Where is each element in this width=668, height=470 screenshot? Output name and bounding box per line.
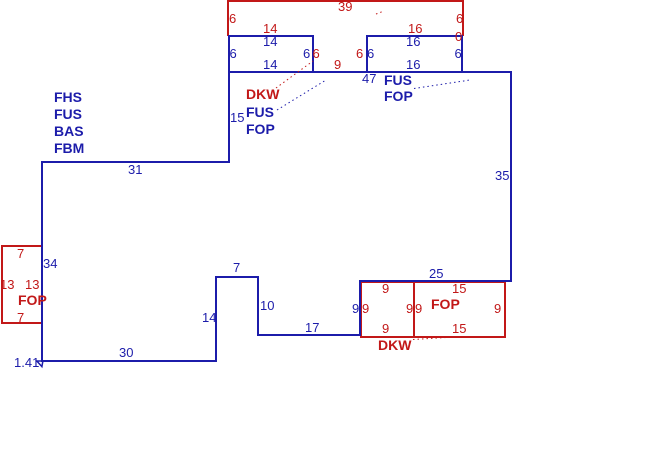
dim 6 blue box1 right — [303, 47, 310, 60]
dim 14 blue top — [263, 35, 277, 48]
dim 25 — [429, 267, 443, 280]
dim 16 red — [408, 22, 422, 35]
label FUS left — [246, 105, 274, 119]
label FOP left box — [18, 293, 47, 307]
dotted pointer DKW box — [413, 338, 446, 340]
label FOP red box — [431, 297, 460, 311]
left red FOP box — [1, 245, 43, 324]
dim 10 — [260, 299, 274, 312]
dim 6 blue box1 left — [230, 47, 237, 60]
label FOP left — [246, 122, 275, 136]
label FOP right — [384, 89, 413, 103]
dim 15 red top — [452, 282, 466, 295]
main outline wall 14 — [215, 276, 217, 362]
dim 16 blue bottom — [406, 58, 420, 71]
dotted pointer FUS left — [277, 80, 326, 110]
dim 6 red gap right — [356, 47, 363, 60]
dim 9 red divider left — [406, 302, 413, 315]
main outline wall 17 — [257, 334, 361, 336]
dim 6 top-right — [456, 12, 463, 25]
blue garage box 1 — [228, 35, 314, 73]
main outline wall 7 — [215, 276, 259, 278]
dim 34 — [43, 257, 57, 270]
dim 14 blue bottom — [263, 58, 277, 71]
dim 16 blue top — [406, 35, 420, 48]
dim 35 — [495, 169, 509, 182]
dim 6 blue box2 left — [367, 47, 374, 60]
dim 9 red cell bottom — [382, 322, 389, 335]
dim 39 — [338, 0, 352, 13]
main outline wall 9 — [359, 280, 361, 336]
blue garage box 2 — [366, 35, 464, 73]
dim 7 red top — [17, 247, 24, 260]
dim 9 red left wall — [362, 302, 369, 315]
label DKW red box — [378, 338, 411, 352]
main outline wall 10 — [257, 276, 259, 337]
dim 14 blue left step — [202, 311, 216, 324]
dim 13 red left — [0, 278, 14, 291]
dim 0 red — [455, 30, 462, 43]
dim 9 red divider right — [415, 302, 422, 315]
red porch outline top — [228, 0, 465, 2]
dim 13 red right — [25, 278, 39, 291]
dim 17 — [305, 321, 319, 334]
dim 15 red bottom — [452, 322, 466, 335]
dim 14 red — [263, 22, 277, 35]
dim 9 red cell top — [382, 282, 389, 295]
main outline wall 15 — [228, 71, 230, 163]
label FUS stack — [54, 107, 82, 121]
label FBM — [54, 141, 84, 155]
red porch outline left — [227, 0, 229, 36]
dim 9 red right wall — [494, 302, 501, 315]
main outline wall 25 — [359, 280, 511, 282]
dotted pointer DKW — [276, 61, 313, 88]
dotted mark near 39 — [376, 11, 384, 14]
dim 6 top-left — [229, 12, 236, 25]
label FHS — [54, 90, 82, 104]
bottom right red box divider — [413, 281, 415, 337]
dim 15 — [230, 111, 244, 124]
bottom right red box outer — [360, 281, 507, 339]
dim 47 — [362, 72, 376, 85]
dim 6 red gap left — [313, 47, 320, 60]
main outline wall 31 — [41, 161, 229, 163]
main outline wall 34 — [41, 161, 43, 362]
dim 9 blue — [352, 302, 359, 315]
label DKW left — [246, 87, 279, 101]
dim 31 — [128, 163, 142, 176]
dim 30 — [119, 346, 133, 359]
main outline wall right 35 — [510, 71, 512, 283]
red porch outline right — [462, 0, 464, 36]
dim 9 red gap — [334, 58, 341, 71]
label BAS — [54, 124, 84, 138]
dotted pointer FUS right — [414, 80, 470, 89]
dim 7 blue step — [233, 261, 240, 274]
dim 7 red bottom — [17, 311, 24, 324]
dim 6 blue box2 right — [455, 47, 462, 60]
main outline wall top 47 — [228, 71, 512, 73]
dim 1.41 — [14, 356, 39, 369]
main outline wall 30 — [41, 360, 217, 362]
label FUS right — [384, 73, 412, 87]
